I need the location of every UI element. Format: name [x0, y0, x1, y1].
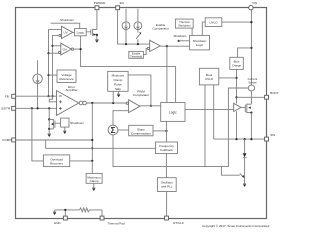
- svg-text:Amplifier: Amplifier: [65, 88, 77, 92]
- svg-text:RT/CLK: RT/CLK: [173, 221, 184, 225]
- svg-text:Reference: Reference: [59, 77, 74, 81]
- svg-text:Shutdown: Shutdown: [173, 34, 186, 38]
- transistor Q2 SS discharge: [49, 119, 60, 129]
- svg-text:Clamp: Clamp: [113, 78, 122, 82]
- box boot UVLO: [199, 68, 218, 85]
- box maximum clamp: [86, 173, 102, 183]
- svg-text:GND: GND: [54, 221, 62, 225]
- svg-text:with PLL: with PLL: [161, 184, 172, 188]
- svg-text:Thermal Pad: Thermal Pad: [107, 221, 125, 225]
- box main logic: [161, 103, 185, 122]
- wire SS discharge branch: [48, 108, 50, 133]
- wire vref output: [49, 74, 58, 76]
- wire to OV inverting input: [49, 52, 59, 54]
- svg-text:Shutdown: Shutdown: [178, 24, 191, 28]
- svg-text:Minimum: Minimum: [112, 74, 125, 78]
- transistor Q3 power MOSFET: [245, 104, 252, 114]
- svg-text:PWRGD: PWRGD: [94, 1, 106, 5]
- svg-text:OV: OV: [63, 47, 67, 51]
- wire boot UVLO right drop to SW: [213, 85, 215, 139]
- wire VIN drop: [250, 10, 252, 86]
- pin SS/TR: [16, 107, 57, 109]
- box thermal shutdown: [175, 19, 193, 28]
- svg-text:BOOT: BOOT: [270, 91, 279, 95]
- wire slope comp to logic-FF net: [153, 130, 167, 132]
- svg-text:Compensation: Compensation: [131, 131, 151, 135]
- box voltage reference: [57, 70, 76, 83]
- box UVLO: [205, 18, 222, 27]
- wire FB riser 1: [49, 30, 62, 97]
- node PWRGD logic box: [75, 29, 87, 36]
- box overload recovery: [43, 155, 69, 167]
- wire EN pin net: [118, 10, 150, 44]
- current source I-SS: [33, 60, 42, 108]
- svg-text:UVLO: UVLO: [205, 77, 214, 81]
- transistor clamp arrow: [240, 173, 244, 177]
- wire FF to oscillator: [165, 154, 167, 178]
- svg-text:UV: UV: [64, 31, 68, 35]
- svg-text:COMP: COMP: [2, 138, 11, 142]
- wire UVLO to shutdown logic: [202, 22, 205, 35]
- pin SW: [265, 137, 269, 141]
- ground below Q1: [95, 39, 98, 41]
- comparator UV: [59, 26, 75, 38]
- box enable threshold: [129, 51, 144, 58]
- wire MCPS gate to PWM output: [128, 75, 151, 106]
- node sigma summer: [108, 125, 118, 135]
- box oscillator with PLL: [157, 178, 176, 192]
- node shutdown driver box: [61, 118, 69, 127]
- svg-text:Clamp: Clamp: [90, 179, 99, 183]
- wire shutdown line to logic box: [51, 23, 80, 28]
- svg-text:Logic: Logic: [196, 43, 204, 47]
- wire EA output to PWM comparator: [86, 102, 126, 104]
- wire MCPS to COMP node: [112, 91, 114, 103]
- wire COMP bus vertical: [91, 103, 93, 161]
- wire GND net: [55, 210, 102, 216]
- box slope compensation: [129, 125, 153, 136]
- ground below clamp: [243, 183, 246, 185]
- current source Ihys: [134, 9, 142, 30]
- pin COMP: [16, 139, 93, 141]
- ground below maximum clamp: [92, 183, 95, 188]
- svg-text:Σ: Σ: [111, 126, 116, 135]
- svg-text:FB: FB: [5, 94, 9, 98]
- wire driver to gate: [241, 106, 245, 108]
- comparator enable: [147, 40, 160, 51]
- pin FB: [16, 95, 57, 97]
- pin BOOT: [265, 95, 269, 99]
- wire reference to EA plus input: [49, 96, 56, 102]
- wire PWRGD pin drop: [96, 10, 98, 30]
- op-amp U-EA error amplifier: [57, 91, 79, 116]
- wire TS to shutdown logic: [191, 28, 193, 35]
- wire FET source to SW: [250, 113, 252, 140]
- comparator OV: [58, 43, 80, 55]
- wire branch to clamp transistor: [221, 167, 239, 176]
- wire driver to SW: [236, 111, 238, 139]
- wire sigma to PWM lower input: [113, 111, 129, 126]
- wire logic to frequency foldback: [166, 121, 168, 142]
- ground below shutdown box: [63, 127, 66, 131]
- svg-text:Foldback: Foldback: [160, 148, 173, 152]
- svg-text:Sense: Sense: [248, 81, 257, 85]
- border frame: [16, 8, 267, 219]
- wire boot UVLO to boot node: [219, 77, 237, 79]
- pin GND: [63, 216, 67, 220]
- svg-text:Pulse: Pulse: [114, 83, 122, 87]
- wire OR output: [70, 160, 93, 162]
- box shutdown logic: [190, 35, 210, 50]
- box boot charge: [230, 57, 244, 69]
- pin PWRGD: [95, 6, 99, 10]
- wire COMP to frequency foldback staircase: [46, 140, 156, 148]
- wire UVLO to VIN rail: [222, 21, 252, 23]
- wire sense to FET drain: [250, 91, 252, 104]
- wire FB riser 2: [53, 35, 59, 96]
- svg-text:Shutdown: Shutdown: [60, 18, 74, 22]
- wire SW line: [214, 138, 265, 140]
- wire oscillator to RT/CLK pin: [166, 192, 168, 217]
- wire enable comparator output to shutdown logic: [160, 45, 189, 47]
- svg-text:Logic: Logic: [77, 30, 85, 34]
- pin VIN: [249, 5, 253, 9]
- wire VIN tap to boot charge: [238, 48, 252, 57]
- ground below Q2: [48, 133, 51, 135]
- wire BOOT line: [237, 96, 265, 98]
- comparator PWM: [126, 100, 140, 113]
- box minimum clamp pulse skip: [108, 71, 128, 91]
- box frequency foldback: [156, 142, 178, 154]
- wire enable output to main logic: [166, 46, 168, 102]
- svg-text:Threshold: Threshold: [130, 55, 142, 59]
- pin Thermal Pad: [100, 216, 104, 220]
- svg-text:Comparator: Comparator: [152, 27, 168, 31]
- svg-text:SW: SW: [270, 133, 275, 137]
- wire to OV plus input: [53, 45, 61, 47]
- svg-text:Comparator: Comparator: [133, 93, 149, 97]
- diode D1: [244, 139, 246, 153]
- svg-text:Logic: Logic: [169, 110, 177, 114]
- node EA output gm circles: [79, 101, 83, 105]
- svg-text:Recovery: Recovery: [50, 161, 64, 165]
- wire logic to gate driver: [185, 108, 234, 110]
- op-amp U3 gate driver: [234, 103, 241, 111]
- current source Ip: [122, 9, 130, 44]
- wire maximum clamp drop: [91, 161, 93, 174]
- svg-text:Charge: Charge: [232, 63, 242, 67]
- svg-text:VIN: VIN: [252, 1, 257, 5]
- wire boot charge down to BOOT: [236, 69, 238, 103]
- wire sigma to slope compensation: [118, 129, 129, 131]
- resistor R1: [80, 208, 90, 212]
- ground below MCPS: [117, 91, 120, 94]
- transistor Q1 PWRGD pull-down MOSFET: [86, 29, 98, 40]
- pin RT/CLK: [165, 216, 169, 220]
- wire threshold to enable comparator: [143, 48, 147, 54]
- svg-text:UVLO: UVLO: [209, 20, 218, 24]
- pin EN: [116, 6, 120, 10]
- svg-text:EN: EN: [120, 1, 124, 5]
- svg-text:SS/TR: SS/TR: [1, 106, 11, 110]
- wire boot UVLO left drop: [204, 85, 206, 167]
- svg-text:Copyright © 2017, Texas Instru: Copyright © 2017, Texas Instruments Inco…: [202, 224, 270, 228]
- wire overload recovery drop: [32, 108, 44, 161]
- ground at GND pin: [53, 210, 56, 212]
- switch on Ihys: [136, 30, 141, 44]
- wire OV output down to main logic: [81, 49, 176, 102]
- wire PWM output to logic: [140, 105, 161, 107]
- wire sigma down and current sense return bus: [113, 88, 248, 167]
- svg-text:Shutdown: Shutdown: [70, 121, 84, 125]
- svg-text:Skip: Skip: [115, 87, 121, 91]
